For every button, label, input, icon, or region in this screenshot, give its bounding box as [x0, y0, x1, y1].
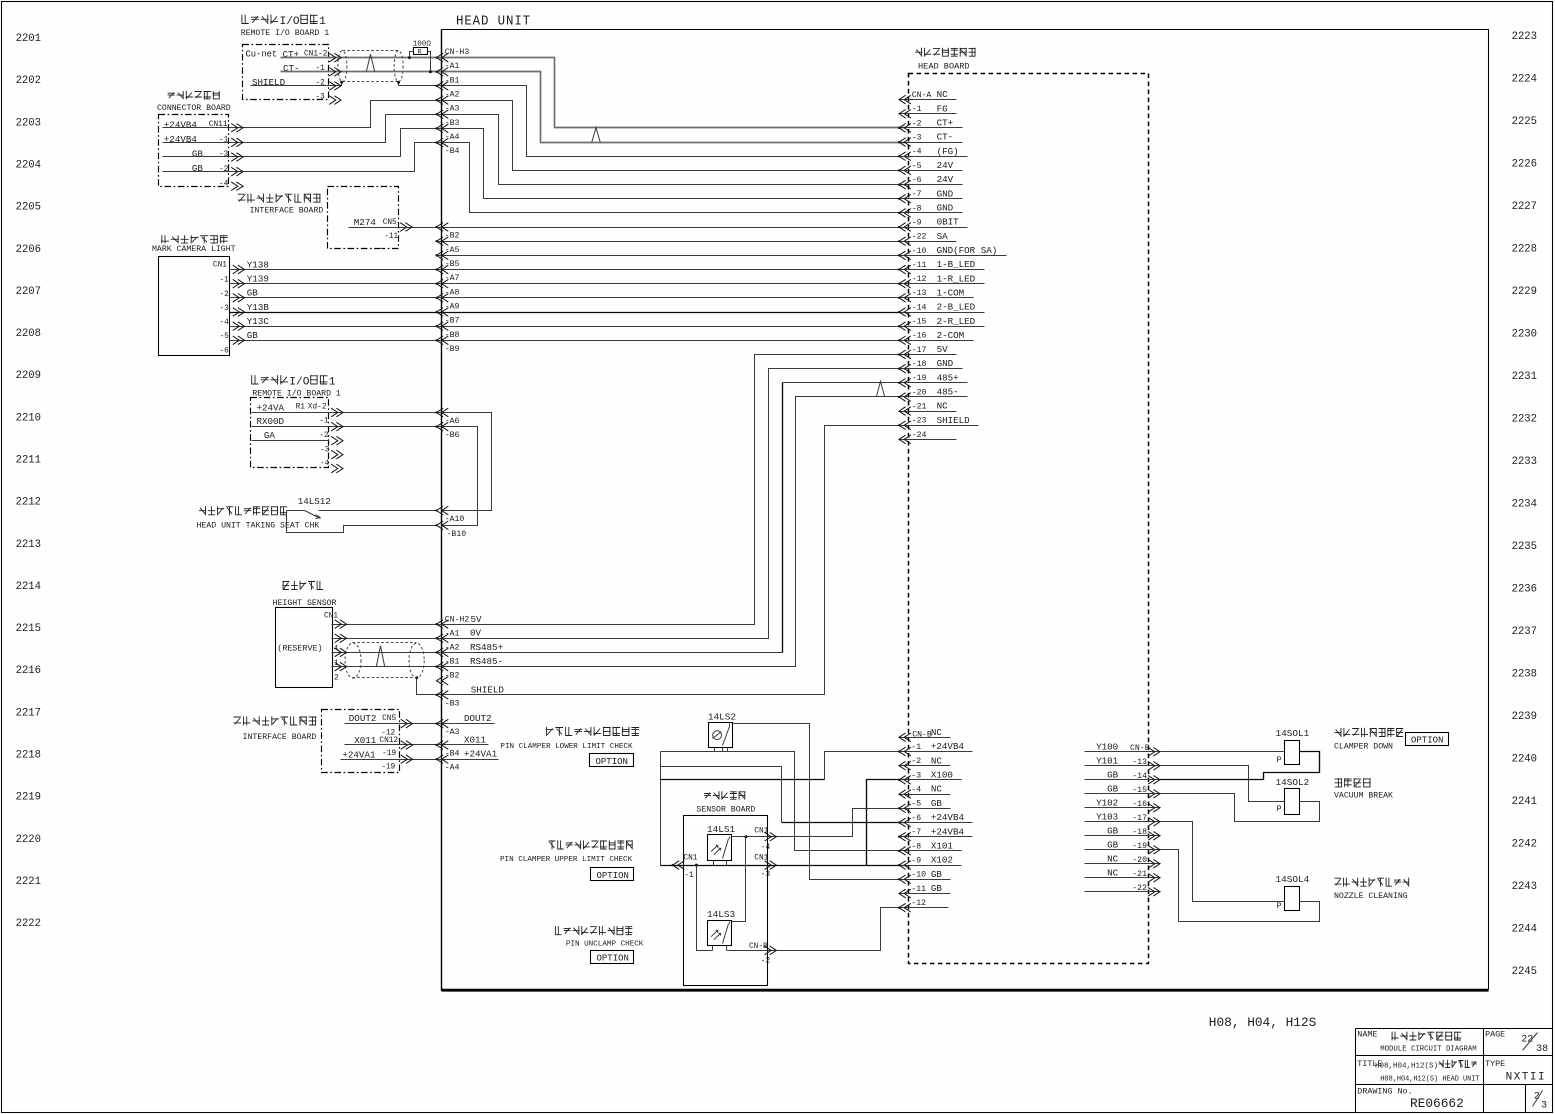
svg-text:-B10: -B10: [447, 530, 467, 539]
svg-text:2241: 2241: [1512, 796, 1537, 808]
svg-text:H08,H04,H12(S): H08,H04,H12(S): [1375, 1063, 1438, 1071]
svg-text:-A3: -A3: [445, 728, 460, 737]
svg-text:GB: GB: [1107, 783, 1119, 794]
svg-text:-1: -1: [220, 277, 230, 285]
svg-text:M274: M274: [354, 217, 377, 228]
chevrons height sensor CN1: [335, 620, 347, 629]
svg-text:-B6: -B6: [445, 431, 460, 440]
svg-text:0V: 0V: [470, 628, 482, 639]
svg-text:2224: 2224: [1512, 74, 1537, 86]
svg-text:2245: 2245: [1512, 966, 1537, 978]
OPTION box lower: [590, 754, 634, 767]
chevron M274 CN5-11: [400, 223, 412, 232]
svg-text:I/O: I/O: [289, 376, 309, 388]
wire shield to CN-A-4: [251, 83, 342, 86]
svg-text:-B7: -B7: [445, 317, 460, 326]
svg-text:Y100: Y100: [1096, 741, 1118, 752]
svg-text:485-: 485-: [937, 387, 959, 398]
svg-text:-24: -24: [912, 431, 927, 440]
svg-text:-6: -6: [220, 347, 230, 355]
svg-text:-B8: -B8: [445, 331, 460, 340]
chevron CN-H2 row 5: [437, 691, 449, 700]
svg-text:-1: -1: [684, 872, 694, 880]
svg-text:SHIELD: SHIELD: [471, 685, 505, 696]
svg-text:2228: 2228: [1512, 244, 1537, 256]
svg-text:-17: -17: [912, 346, 927, 355]
svg-text:P: P: [1277, 755, 1282, 765]
branch to 14LS3: [732, 837, 746, 922]
svg-text:Y139: Y139: [247, 274, 269, 285]
svg-text:2232: 2232: [1512, 414, 1537, 426]
svg-text:VACUUM BREAK: VACUUM BREAK: [1334, 792, 1393, 801]
svg-text:-7: -7: [911, 828, 921, 837]
svg-text:-B1: -B1: [445, 76, 460, 85]
svg-text:1-R_LED: 1-R_LED: [937, 273, 976, 284]
svg-text:-21: -21: [912, 403, 927, 412]
svg-text:2212: 2212: [16, 497, 41, 509]
svg-text:2230: 2230: [1512, 329, 1537, 341]
svg-text:-8: -8: [911, 842, 921, 851]
svg-text:PIN CLAMPER LOWER LIMIT CHECK: PIN CLAMPER LOWER LIMIT CHECK: [500, 743, 633, 751]
svg-text:2213: 2213: [16, 539, 41, 551]
label interface board lower (jp+en): [234, 717, 242, 724]
svg-text:2223: 2223: [1512, 31, 1537, 43]
chevron CN-H3 row 0: [437, 53, 449, 62]
resistor R 100ohm: [414, 48, 428, 55]
+24V vertical: [660, 752, 662, 866]
X100 chevron wire: [867, 780, 905, 866]
svg-text:24V: 24V: [937, 174, 954, 185]
svg-text:CN1: CN1: [754, 828, 768, 836]
svg-text:NC: NC: [1107, 867, 1119, 878]
svg-text:-4: -4: [220, 319, 230, 327]
svg-text:-B9: -B9: [445, 345, 460, 354]
svg-text:-23: -23: [912, 417, 927, 426]
wire Cu-net CT- to CN-A-3: [281, 72, 905, 143]
svg-text:2217: 2217: [16, 707, 41, 719]
chevron CN-H2 row 1: [437, 634, 449, 643]
svg-text:OPTION: OPTION: [597, 871, 629, 881]
interface board (upper, M274) dash-dot box: [328, 187, 399, 249]
svg-text:GB: GB: [1107, 769, 1119, 780]
chevron CN-H3 -A7: [437, 265, 449, 274]
svg-text:-A7: -A7: [445, 274, 460, 283]
svg-text:2218: 2218: [16, 750, 41, 762]
svg-text:X100: X100: [931, 770, 953, 781]
svg-text:-B2: -B2: [445, 232, 460, 241]
svg-text:2227: 2227: [1512, 201, 1537, 213]
common line CN1-1..CN1-3..X102: [661, 865, 905, 867]
svg-text:-14: -14: [912, 303, 927, 312]
svg-text:-12: -12: [911, 899, 926, 908]
remote I/O board 1 (lower) dash-dot box: [251, 398, 329, 468]
svg-text:-22: -22: [912, 233, 927, 242]
wire Y103 to 14SOL4: [1161, 822, 1285, 902]
svg-text:MODULE CIRCUIT DIAGRAM: MODULE CIRCUIT DIAGRAM: [1380, 1046, 1476, 1054]
svg-text:NC: NC: [937, 89, 949, 100]
svg-text:0BIT: 0BIT: [937, 217, 960, 228]
svg-text:MARK CAMERA LIGHT: MARK CAMERA LIGHT: [152, 245, 236, 254]
wires height sensor 5V/0V/RS485 to CN-A 17..20: [332, 355, 905, 625]
label vacuum break (jp+en): [1335, 778, 1343, 787]
label remote io board 1 lower (jp+en): [251, 375, 258, 384]
svg-text:2233: 2233: [1512, 456, 1537, 468]
svg-text:-13: -13: [912, 289, 927, 298]
chevron CN-H3 -A6/-B6: [437, 408, 449, 417]
svg-text:2203: 2203: [16, 117, 41, 129]
height sensor box: [276, 608, 333, 688]
svg-text:-12: -12: [381, 729, 395, 737]
sensor board chevrons CN1-1 / CN1-4 / CN1-3 / CN-B-2: [673, 861, 685, 870]
svg-text:-A4: -A4: [445, 133, 460, 142]
check label lower limit (jp+en): [546, 727, 554, 736]
svg-text:P: P: [1277, 901, 1282, 911]
svg-text:2214: 2214: [16, 581, 41, 593]
svg-text:14SOL1: 14SOL1: [1276, 728, 1310, 739]
label nozzle cleaning (jp+en): [1335, 878, 1342, 885]
svg-text:2216: 2216: [16, 665, 41, 677]
chevrons mark camera CN1: [233, 265, 245, 274]
svg-text:Y102: Y102: [1096, 797, 1118, 808]
svg-text:-4: -4: [219, 180, 229, 188]
svg-text:Y13C: Y13C: [247, 316, 270, 327]
svg-text:-10: -10: [912, 247, 927, 256]
svg-text:CN-H3: CN-H3: [445, 48, 470, 57]
wire Cu-net CT+ to CN-A-2: [281, 58, 905, 128]
svg-text:-A9: -A9: [445, 302, 460, 311]
twisted pair bump on 485- run: [876, 381, 884, 397]
svg-text:+24VB4: +24VB4: [164, 134, 198, 145]
wire Y101 to 14SOL2: [1161, 766, 1285, 802]
svg-text:-2: -2: [911, 757, 921, 766]
svg-text:DRAWING No.: DRAWING No.: [1357, 1087, 1412, 1097]
svg-text:(RESERVE): (RESERVE): [277, 644, 322, 654]
svg-text:+24VB4: +24VB4: [931, 812, 965, 823]
svg-text:-B1: -B1: [445, 658, 460, 667]
svg-text:2244: 2244: [1512, 924, 1537, 936]
wire M274 CN5-11 to CN-A-9 (0BIT): [349, 227, 905, 229]
svg-text:-12: -12: [912, 275, 927, 284]
svg-text:-2: -2: [912, 119, 922, 128]
CN1-4 wire to CN-B-5: [732, 809, 905, 837]
14SOL1 return to GB-14: [1161, 752, 1320, 780]
svg-text:Cu-net: Cu-net: [246, 49, 278, 59]
svg-text:NC: NC: [937, 401, 949, 412]
svg-text:-A10: -A10: [445, 515, 465, 524]
svg-text:NXTII: NXTII: [1506, 1072, 1547, 1084]
chevron CN-H3 -A5: [437, 237, 449, 246]
svg-text:2220: 2220: [16, 834, 41, 846]
label mark camera light (jp+en): [161, 235, 169, 243]
svg-text:TYPE: TYPE: [1485, 1059, 1505, 1069]
svg-text:PIN UNCLAMP CHECK: PIN UNCLAMP CHECK: [566, 940, 644, 948]
svg-text:H08,H04,H12(S) HEAD UNIT: H08,H04,H12(S) HEAD UNIT: [1380, 1075, 1479, 1083]
svg-text:+24VA: +24VA: [257, 402, 285, 413]
svg-text:SHIELD: SHIELD: [252, 77, 286, 88]
svg-text:CT-: CT-: [937, 132, 954, 143]
svg-text:5V: 5V: [471, 614, 483, 625]
svg-text:2201: 2201: [16, 33, 41, 45]
svg-text:X102: X102: [931, 855, 953, 866]
svg-text:HEAD UNIT: HEAD UNIT: [456, 14, 531, 30]
wire A5 row to CN-A-22 (SA): [437, 241, 905, 243]
svg-text:-6: -6: [912, 176, 922, 185]
svg-text:+24VA1: +24VA1: [464, 749, 498, 760]
svg-text:-B3: -B3: [445, 700, 460, 709]
svg-text:CN5: CN5: [382, 715, 396, 723]
svg-text:2207: 2207: [16, 286, 41, 298]
svg-text:Y103: Y103: [1096, 811, 1118, 822]
chevron CN-H2 row 3: [437, 662, 449, 671]
svg-text:2234: 2234: [1512, 499, 1537, 511]
interface board (lower) dash-dot box: [322, 710, 400, 773]
chevron CN-H3 row 5: [437, 124, 449, 133]
14LS3 output to CN-B-12: [697, 866, 713, 951]
svg-text:OPTION: OPTION: [596, 757, 628, 767]
svg-text:GB: GB: [931, 798, 943, 809]
svg-text:CN1: CN1: [213, 262, 227, 270]
chevron CN-H3 -A8: [437, 279, 449, 288]
svg-text:2-COM: 2-COM: [937, 330, 965, 341]
svg-text:2202: 2202: [16, 75, 41, 87]
svg-text:GB: GB: [1107, 825, 1119, 836]
svg-text:-1: -1: [319, 417, 329, 425]
svg-text:-A6: -A6: [445, 417, 460, 426]
svg-text:2235: 2235: [1512, 541, 1537, 553]
chevron CN-H3 row 6: [437, 138, 449, 147]
svg-text:SHIELD: SHIELD: [937, 415, 971, 426]
svg-text:-B3: -B3: [445, 119, 460, 128]
svg-text:REMOTE I/O BOARD 1: REMOTE I/O BOARD 1: [252, 388, 341, 398]
svg-text:2208: 2208: [16, 328, 41, 340]
twisted pair bump near 596 on CT- run: [592, 128, 600, 143]
svg-text:-B5: -B5: [445, 260, 460, 269]
svg-text:-1: -1: [911, 743, 921, 752]
svg-text:CN1: CN1: [324, 612, 338, 620]
svg-text:-A8: -A8: [445, 288, 460, 297]
svg-text:2206: 2206: [16, 244, 41, 256]
sensor board box: [684, 816, 768, 986]
svg-text:1-COM: 1-COM: [937, 287, 965, 298]
mark camera light box: [159, 257, 230, 356]
svg-text:RS485+: RS485+: [470, 642, 503, 653]
svg-text:-19: -19: [381, 764, 395, 772]
chevron CN-H3 row 1: [437, 68, 449, 77]
svg-text:+24VB4: +24VB4: [931, 826, 965, 837]
svg-text:-A2: -A2: [445, 91, 460, 100]
14SOL2 return to GB-15: [1161, 794, 1320, 822]
svg-text:NC: NC: [931, 755, 943, 766]
svg-text:CN1: CN1: [754, 854, 768, 862]
wire shield of height sensor to CN-A-23: [417, 426, 905, 695]
chevron CN-H3 -B2: [437, 223, 449, 232]
svg-text:1: 1: [319, 16, 326, 28]
chevron CN-H2 row 2: [437, 648, 449, 657]
svg-text:2211: 2211: [16, 455, 41, 467]
svg-text:2-B_LED: 2-B_LED: [937, 302, 976, 313]
+24VB4 rail and X101 feed: [661, 752, 905, 851]
svg-text:NC: NC: [931, 784, 943, 795]
svg-text:485+: 485+: [937, 372, 959, 383]
svg-text:CN5: CN5: [383, 219, 397, 227]
svg-text:CLAMPER DOWN: CLAMPER DOWN: [1334, 743, 1393, 752]
svg-text:Xd-2: Xd-2: [308, 403, 327, 411]
svg-text:GB: GB: [192, 163, 204, 174]
svg-text:GB: GB: [931, 869, 943, 880]
svg-text:Y13B: Y13B: [247, 302, 270, 313]
svg-text:GB: GB: [1107, 839, 1119, 850]
chevrons remote I/O board top CT+/CT-/SHIELD/-3: [329, 53, 341, 62]
chevron CN-H3 row 3: [437, 96, 449, 105]
chevron CN-H2 row 4: [437, 676, 449, 685]
CN-B-1 feed jog: [825, 752, 905, 780]
svg-text:NC: NC: [1107, 853, 1119, 864]
svg-text:14LS12: 14LS12: [298, 496, 331, 507]
svg-text:GB: GB: [247, 330, 259, 341]
chevron CN-H3 -B5: [437, 251, 449, 260]
rail2 to CN-B-6: [661, 767, 782, 823]
svg-text:CONNECTOR BOARD: CONNECTOR BOARD: [157, 104, 231, 113]
svg-text:DOUT2: DOUT2: [349, 713, 377, 724]
svg-text:2: 2: [334, 674, 339, 682]
svg-text:-B2: -B2: [445, 672, 460, 681]
head unit taking seat chk label (jp+en): [199, 506, 206, 515]
check label pin unclamp (jp+en): [555, 926, 562, 935]
svg-text:2240: 2240: [1512, 754, 1537, 766]
svg-text:-7: -7: [912, 190, 922, 199]
svg-text:GND: GND: [937, 203, 954, 214]
svg-text:-4: -4: [911, 786, 921, 795]
svg-text:2204: 2204: [16, 159, 41, 171]
wires DOUT2/X011/+24VA1 stubs: [345, 723, 495, 725]
connector board dash-dot box: [159, 115, 229, 187]
svg-text:CN-H2: CN-H2: [445, 615, 470, 624]
svg-text:-5: -5: [912, 162, 922, 171]
svg-text:2237: 2237: [1512, 626, 1537, 638]
svg-text:-19: -19: [912, 374, 927, 383]
svg-text:-A1: -A1: [445, 62, 460, 71]
svg-text:X101: X101: [931, 841, 954, 852]
svg-text:-8: -8: [912, 204, 922, 213]
svg-text:38: 38: [1536, 1043, 1548, 1054]
OPTION box upper: [591, 868, 634, 881]
label connector board (jp+en): [168, 93, 175, 99]
svg-text:2215: 2215: [16, 623, 41, 635]
label head board (jp): [915, 48, 922, 57]
svg-text:X011: X011: [464, 734, 487, 745]
OPTION box unclamp: [591, 951, 634, 964]
svg-text:2236: 2236: [1512, 584, 1537, 596]
svg-text:-3: -3: [220, 305, 230, 313]
svg-text:2231: 2231: [1512, 371, 1537, 383]
svg-text:-2: -2: [316, 80, 326, 88]
title block table: [1356, 1028, 1553, 1030]
svg-text:DOUT2: DOUT2: [464, 713, 492, 724]
svg-text:HEAD UNIT TAKING SEAT CHK: HEAD UNIT TAKING SEAT CHK: [197, 522, 320, 531]
check label upper limit (jp+en): [549, 840, 556, 849]
chevron CN-H3 -A9: [437, 294, 449, 303]
svg-text:24V: 24V: [937, 160, 954, 171]
svg-text:-B4: -B4: [445, 749, 460, 758]
svg-text:-2: -2: [319, 432, 329, 440]
shield cable symbol (Cu-net): [338, 51, 347, 82]
svg-text:INTERFACE BOARD: INTERFACE BOARD: [250, 207, 324, 216]
svg-text:2222: 2222: [16, 918, 41, 930]
svg-text:CN-A: CN-A: [912, 91, 932, 100]
svg-text:-B4: -B4: [445, 147, 460, 156]
chevron CN-H3 -B8: [437, 322, 449, 331]
chevron CN-H3 row 2: [437, 82, 449, 91]
svg-text:-4: -4: [761, 844, 771, 852]
chevrons interface board lower CN5/CN12: [401, 719, 413, 728]
wires 14LS2: [722, 748, 724, 752]
chevrons connector board CN11/-1/-3/-2/-4: [231, 124, 243, 133]
svg-text:-9: -9: [912, 218, 922, 227]
wires connector board +24VB4/+24VB4/GB/GB: [163, 101, 905, 171]
label interface board upper (jp+en): [238, 194, 246, 201]
svg-text:2210: 2210: [16, 412, 41, 424]
svg-text:2205: 2205: [16, 202, 41, 214]
svg-text:2239: 2239: [1512, 711, 1537, 723]
svg-text:2242: 2242: [1512, 839, 1537, 851]
wire GA stub: [252, 440, 329, 442]
svg-text:14LS2: 14LS2: [708, 712, 736, 723]
svg-text:-4: -4: [912, 148, 922, 157]
svg-text:HEAD BOARD: HEAD BOARD: [918, 61, 970, 71]
svg-text:100Ω: 100Ω: [413, 40, 432, 48]
svg-text:GB: GB: [931, 883, 943, 894]
svg-text:2219: 2219: [16, 792, 41, 804]
svg-text:-4: -4: [320, 460, 330, 468]
svg-text:PAGE: PAGE: [1485, 1029, 1505, 1039]
svg-text:-A2: -A2: [445, 643, 460, 652]
svg-text:-2: -2: [220, 291, 230, 299]
svg-text:3: 3: [1541, 1100, 1547, 1111]
wire B5 row to CN-A-10: [437, 255, 905, 257]
svg-text:RE06662: RE06662: [1410, 1096, 1464, 1111]
svg-text:2243: 2243: [1512, 881, 1537, 893]
svg-text:2225: 2225: [1512, 116, 1537, 128]
svg-text:2238: 2238: [1512, 669, 1537, 681]
label height sensor (jp+en): [283, 581, 290, 590]
svg-text:-A1: -A1: [445, 629, 460, 638]
wire Y100 to 14SOL1: [1161, 751, 1285, 753]
svg-text:NAME: NAME: [1357, 1029, 1377, 1039]
svg-text:I/O: I/O: [280, 16, 300, 28]
svg-text:-3: -3: [911, 771, 921, 780]
svg-text:-10: -10: [911, 871, 926, 880]
svg-text:2229: 2229: [1512, 286, 1537, 298]
svg-text:5V: 5V: [937, 344, 949, 355]
wires remote I/O lower +24VA/RX00D loop to A10/B10: [252, 413, 492, 511]
svg-text:INTERFACE BOARD: INTERFACE BOARD: [243, 733, 317, 742]
svg-text:SA: SA: [937, 231, 949, 242]
svg-text:+24VB4: +24VB4: [164, 119, 198, 130]
svg-text:GND: GND: [937, 358, 954, 369]
svg-text:2-R_LED: 2-R_LED: [937, 316, 976, 327]
svg-text:-5: -5: [911, 800, 921, 809]
svg-text:GB: GB: [247, 288, 259, 299]
svg-text:-11: -11: [912, 261, 927, 270]
svg-text:-16: -16: [912, 332, 927, 341]
svg-text:GA: GA: [264, 430, 276, 441]
svg-text:-2: -2: [219, 166, 229, 174]
label remote io board 1 (jp+en): [242, 15, 249, 24]
chevron CN-H2 row 0: [437, 620, 449, 629]
svg-text:PIN CLAMPER UPPER LIMIT CHECK: PIN CLAMPER UPPER LIMIT CHECK: [500, 856, 633, 864]
svg-text:+24VB4: +24VB4: [931, 741, 965, 752]
svg-text:-9: -9: [911, 857, 921, 866]
